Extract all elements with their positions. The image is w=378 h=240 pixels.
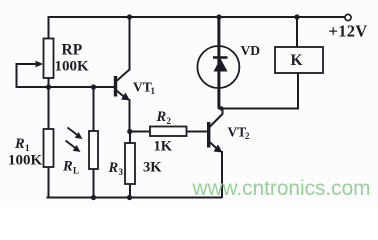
svg-text:K: K (291, 52, 303, 69)
relay K (275, 16, 323, 110)
node RL top junction (91, 84, 96, 89)
svg-text:VT: VT (133, 80, 152, 95)
svg-text:VD: VD (241, 43, 261, 58)
node VT2 collector junction (219, 106, 223, 110)
wire left drop to RP (48, 16, 50, 39)
svg-text:+12V: +12V (329, 22, 368, 41)
svg-text:100K: 100K (55, 59, 90, 75)
svg-text:1: 1 (151, 86, 156, 96)
resistor R1 100K (8, 87, 54, 198)
svg-text:3: 3 (119, 167, 124, 177)
wire base bus y87 (17, 86, 115, 88)
svg-text:R: R (108, 160, 119, 176)
node VT1 collector on rail (127, 14, 132, 19)
potentiometer RP (17, 39, 90, 89)
resistor R2 1K (130, 109, 208, 155)
svg-text:3K: 3K (143, 160, 162, 176)
svg-text:2: 2 (245, 131, 250, 141)
svg-text:R: R (156, 109, 167, 125)
svg-text:RP: RP (62, 42, 83, 59)
svg-text:2: 2 (167, 116, 172, 126)
node K top on rail (294, 14, 299, 19)
svg-text:L: L (73, 166, 79, 176)
terminal +12V (329, 14, 368, 40)
photoresistor RL (62, 87, 98, 198)
wire top rail (48, 16, 345, 18)
svg-text:100K: 100K (8, 153, 43, 169)
node VT1 emitter / R2 / R3 junction (127, 129, 132, 134)
transistor VT1 (114, 16, 156, 132)
svg-text:R: R (62, 159, 73, 175)
diode VD (197, 16, 260, 109)
svg-text:R: R (14, 136, 25, 152)
resistor R3 3K (108, 132, 163, 199)
svg-text:1: 1 (25, 143, 30, 153)
node R3 bottom (127, 195, 132, 200)
watermark www.cntronics.com (192, 177, 371, 200)
wire bottom rail (48, 197, 223, 199)
node wiper/R1 junction (46, 84, 51, 89)
svg-text:1K: 1K (154, 139, 173, 155)
svg-text:VT: VT (228, 125, 247, 140)
wire VD cathode to K bottom (218, 108, 298, 110)
node RL bottom (91, 195, 96, 200)
svg-text:www.cntronics.com: www.cntronics.com (192, 177, 371, 200)
node VD anode on rail (216, 14, 221, 19)
transistor VT2 (207, 108, 250, 198)
